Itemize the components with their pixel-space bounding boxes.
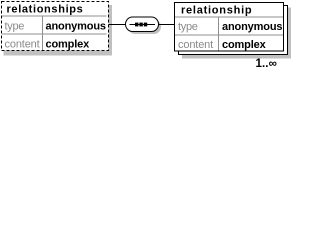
shadow of sequence symbol xyxy=(128,20,161,35)
svg-text:anonymous: anonymous xyxy=(46,21,106,33)
svg-text:1..∞: 1..∞ xyxy=(256,58,277,68)
relationships row separator xyxy=(2,33,107,35)
sequence compositor xyxy=(126,17,162,34)
svg-text:content: content xyxy=(5,39,40,51)
relationships column separator xyxy=(42,16,44,50)
sequence square 3 xyxy=(144,23,147,27)
front box of relationship xyxy=(175,3,284,52)
shadow of relationships box xyxy=(4,5,113,56)
svg-text:type: type xyxy=(178,21,198,33)
svg-text:content: content xyxy=(178,39,213,51)
relationship title separator xyxy=(175,16,283,18)
element relationships (optional, dashed box) xyxy=(2,2,113,56)
sequence square 2 xyxy=(139,23,142,27)
relationships box body xyxy=(2,2,109,51)
wire from relationships to sequence xyxy=(109,24,127,26)
relationship row separator xyxy=(175,34,283,36)
shadow of relationship box xyxy=(182,8,291,59)
svg-text:complex: complex xyxy=(222,39,267,51)
sequence capsule xyxy=(126,17,159,32)
svg-text:relationships: relationships xyxy=(7,4,84,16)
sequence inner line xyxy=(130,24,156,26)
svg-text:relationship: relationship xyxy=(181,5,252,17)
svg-text:anonymous: anonymous xyxy=(222,21,282,33)
relationships title separator xyxy=(2,15,107,17)
svg-text:complex: complex xyxy=(46,39,91,51)
svg-text:type: type xyxy=(5,21,25,33)
element relationship (repeating, stacked box) xyxy=(175,3,292,71)
back box of relationship (multi-occurrence) xyxy=(179,6,288,55)
relationship column separator xyxy=(218,17,220,51)
wire from sequence to relationship xyxy=(159,24,175,26)
sequence square 1 xyxy=(135,23,138,27)
